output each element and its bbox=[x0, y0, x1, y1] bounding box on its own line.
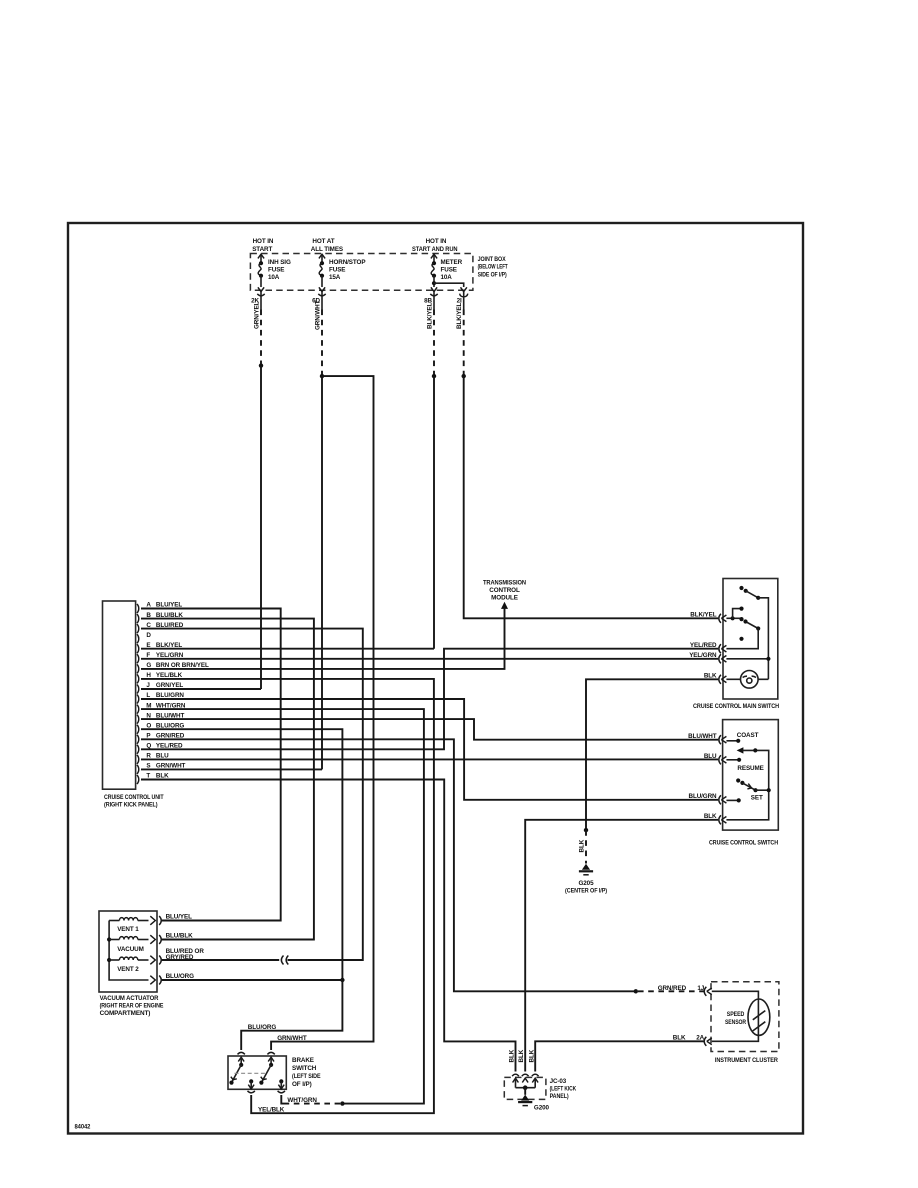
pin wire colour labels bbox=[156, 602, 209, 780]
svg-text:SIDE OF I/P): SIDE OF I/P) bbox=[478, 271, 507, 278]
actuator pin connectors (right edge) bbox=[150, 916, 161, 925]
solenoid coil VENT1 bbox=[109, 920, 119, 922]
pin connectors on box edge bbox=[719, 614, 727, 623]
input arrows into box bbox=[238, 1057, 244, 1061]
cruise control main switch SW1 bbox=[689, 579, 779, 711]
svg-text:INH SIG: INH SIG bbox=[268, 259, 291, 266]
svg-text:HOT IN: HOT IN bbox=[253, 238, 274, 245]
solenoid coil VACUUM bbox=[109, 939, 119, 941]
svg-text:(BELOW LEFT: (BELOW LEFT bbox=[478, 264, 508, 271]
svg-text:BLK: BLK bbox=[578, 839, 585, 852]
pin connectors bbox=[704, 987, 712, 996]
internal: YEL/GRN node bbox=[726, 658, 768, 660]
svg-text:GRN/WHT: GRN/WHT bbox=[277, 1035, 307, 1042]
svg-text:G205: G205 bbox=[578, 880, 594, 887]
svg-text:SPEED: SPEED bbox=[727, 1011, 745, 1018]
switch 1 bbox=[239, 1063, 243, 1067]
brake switch (left side of I/P) bbox=[228, 1024, 321, 1114]
svg-text:START AND RUN: START AND RUN bbox=[412, 246, 458, 253]
svg-text:G: G bbox=[146, 662, 151, 669]
svg-text:CRUISE CONTROL UNIT: CRUISE CONTROL UNIT bbox=[104, 794, 164, 801]
ground G200 bbox=[518, 1095, 549, 1112]
svg-text:BLK/YEL: BLK/YEL bbox=[690, 612, 716, 619]
svg-text:BLU/WHT: BLU/WHT bbox=[688, 733, 717, 740]
svg-text:GRN/RED: GRN/RED bbox=[658, 985, 687, 992]
common feed line bbox=[109, 921, 148, 981]
wire BRN OR BRN/YEL pin G to transmission control module bbox=[141, 607, 505, 669]
svg-text:BLK/YEL: BLK/YEL bbox=[426, 303, 433, 329]
wire BLK instrument cluster to JC-03 bbox=[535, 1041, 704, 1071]
node: transmission control module output bbox=[483, 579, 526, 609]
svg-text:ALL TIMES: ALL TIMES bbox=[311, 246, 343, 253]
instrument cluster (dashed box) bbox=[658, 982, 779, 1064]
wire P GRN/RED pin P to instrument cluster (dashed splice) bbox=[141, 739, 704, 993]
wire M WHT/GRN pin M to brake switch (dashed splice) bbox=[141, 709, 424, 1106]
svg-text:BLU/GRN: BLU/GRN bbox=[689, 793, 718, 800]
svg-text:CRUISE CONTROL MAIN SWITCH: CRUISE CONTROL MAIN SWITCH bbox=[693, 703, 779, 710]
solenoid coil VENT2 bbox=[109, 959, 119, 961]
svg-text:METER: METER bbox=[441, 259, 463, 266]
svg-text:HOT AT: HOT AT bbox=[312, 238, 334, 245]
svg-text:BLU/YEL: BLU/YEL bbox=[166, 914, 192, 921]
svg-text:1J: 1J bbox=[697, 985, 704, 992]
svg-text:HOT IN: HOT IN bbox=[426, 238, 447, 245]
connector 2K bbox=[251, 294, 265, 304]
svg-text:SENSOR: SENSOR bbox=[725, 1019, 746, 1026]
wire Q YEL/RED pin Q to cruise control main switch bbox=[141, 649, 718, 750]
svg-text:(RIGHT REAR OF ENGINE: (RIGHT REAR OF ENGINE bbox=[100, 1003, 164, 1010]
svg-text:WHT/GRN: WHT/GRN bbox=[287, 1097, 317, 1104]
svg-text:FUSE: FUSE bbox=[441, 267, 457, 274]
wire N BLU/WHT pin N to cruise control switch bbox=[141, 719, 718, 740]
svg-text:BLU/ORG: BLU/ORG bbox=[166, 973, 195, 980]
svg-text:YEL/GRN: YEL/GRN bbox=[689, 652, 717, 659]
wire B BLU/BLK to vacuum actuator bbox=[141, 619, 314, 940]
svg-text:(LEFT KICK: (LEFT KICK bbox=[550, 1085, 577, 1092]
arrows into JC-03 bbox=[513, 1078, 519, 1082]
svg-text:15A: 15A bbox=[329, 274, 341, 281]
border frame bbox=[68, 223, 803, 1134]
wire H YEL/BLK pin H to brake switch bbox=[141, 679, 434, 1113]
internal: top on/off contact bbox=[739, 586, 743, 590]
svg-text:SWITCH: SWITCH bbox=[292, 1065, 317, 1072]
svg-text:BRN OR BRN/YEL: BRN OR BRN/YEL bbox=[156, 662, 209, 669]
svg-text:COMPARTMENT): COMPARTMENT) bbox=[100, 1010, 151, 1017]
wire: meter fuse branch to 2I inside joint box bbox=[432, 281, 467, 292]
svg-text:MODULE: MODULE bbox=[491, 594, 518, 601]
wire BLK cruise control switch to JC-03 bbox=[525, 820, 718, 1072]
svg-text:10A: 10A bbox=[268, 274, 280, 281]
pin brackets A-T bbox=[137, 604, 139, 784]
fuse F1 INH SIG 10A bbox=[252, 238, 291, 291]
internal bus bbox=[516, 1087, 536, 1089]
output arrows bbox=[250, 1081, 252, 1088]
svg-text:BRAKE: BRAKE bbox=[292, 1057, 314, 1064]
ground G205 (center of I/P) bbox=[565, 864, 607, 895]
joint connector JC-03 (left kick panel) bbox=[504, 1049, 576, 1100]
connector cups bbox=[512, 1074, 519, 1076]
svg-text:CONTROL: CONTROL bbox=[489, 587, 520, 594]
svg-text:(CENTER OF I/P): (CENTER OF I/P) bbox=[565, 887, 607, 894]
wire GRN/WHT from fuse F2 down to pin S bbox=[314, 292, 324, 770]
wire GRN/YEL from fuse F1 down to pin J bbox=[253, 292, 263, 689]
svg-text:GRY/RED: GRY/RED bbox=[166, 954, 194, 961]
wire F YEL/GRN pin F to cruise control main switch bbox=[141, 658, 718, 660]
svg-text:(LEFT SIDE: (LEFT SIDE bbox=[292, 1073, 321, 1080]
svg-text:TRANSMISSION: TRANSMISSION bbox=[483, 579, 526, 586]
switch 2 bbox=[269, 1063, 273, 1067]
wire J GRN/YEL pin J stub bbox=[141, 688, 261, 690]
svg-text:FUSE: FUSE bbox=[268, 267, 284, 274]
svg-text:(RIGHT KICK PANEL): (RIGHT KICK PANEL) bbox=[104, 802, 158, 809]
internal: main contact set bbox=[726, 617, 741, 619]
svg-text:G200: G200 bbox=[534, 1104, 550, 1111]
svg-text:VENT 2: VENT 2 bbox=[117, 966, 139, 973]
fuse F3 METER 10A bbox=[412, 238, 463, 291]
wire BLK main switch to ground G205 bbox=[578, 679, 718, 863]
svg-text:BLK/YEL: BLK/YEL bbox=[456, 303, 463, 329]
wire A BLU/YEL to vacuum actuator vent1 bbox=[141, 609, 281, 921]
svg-text:RESUME: RESUME bbox=[737, 765, 763, 772]
svg-text:BLK: BLK bbox=[518, 1049, 525, 1062]
pin letter labels bbox=[146, 602, 151, 780]
wire BLK/YEL 8B from meter fuse down to pin E bbox=[426, 292, 436, 649]
svg-text:VACUUM: VACUUM bbox=[117, 946, 144, 953]
svg-text:FUSE: FUSE bbox=[329, 267, 345, 274]
cruise control switch SW2 (coast/resume/set) bbox=[688, 720, 778, 847]
wire O BLU/ORG pin O to actuator and brake switch bbox=[141, 729, 345, 1050]
svg-text:HORN/STOP: HORN/STOP bbox=[329, 259, 365, 266]
wire C BLU/RED to vacuum actuator (GRY/RED) bbox=[141, 629, 363, 960]
svg-text:BLU/BLK: BLU/BLK bbox=[166, 933, 193, 940]
connector 6D bbox=[312, 294, 326, 304]
svg-text:D: D bbox=[146, 632, 151, 639]
svg-text:SET: SET bbox=[751, 795, 763, 802]
svg-text:JC-03: JC-03 bbox=[550, 1078, 567, 1085]
connector 8B bbox=[424, 294, 438, 304]
wire R BLU pin R to cruise control switch bbox=[141, 758, 718, 760]
svg-text:VENT 1: VENT 1 bbox=[117, 926, 139, 933]
lamp (illumination bulb) bbox=[726, 678, 768, 680]
svg-text:INSTRUMENT CLUSTER: INSTRUMENT CLUSTER bbox=[715, 1057, 778, 1064]
svg-text:VACUUM ACTUATOR: VACUUM ACTUATOR bbox=[100, 995, 159, 1002]
internal wiring to speed sensor bbox=[712, 991, 759, 1041]
wire E BLK/YEL pin E stub bbox=[141, 648, 434, 650]
svg-text:GRN/YEL: GRN/YEL bbox=[253, 301, 260, 329]
svg-text:OF I/P): OF I/P) bbox=[292, 1081, 312, 1088]
wire T BLK pin T to joint connector JC-03 bbox=[141, 780, 516, 1072]
fuse F2 HORN/STOP 15A bbox=[311, 238, 366, 291]
connector 2I bbox=[457, 294, 468, 305]
bottom connectors bbox=[248, 1091, 255, 1093]
svg-text:YEL/RED: YEL/RED bbox=[690, 642, 717, 649]
svg-text:84042: 84042 bbox=[75, 1123, 91, 1130]
vacuum actuator (right rear of engine compartment) bbox=[99, 911, 204, 1017]
svg-text:JOINT BOX: JOINT BOX bbox=[478, 256, 507, 263]
wire BLK/YEL 2I from meter fuse to cruise main switch bbox=[456, 292, 718, 619]
wire L BLU/GRN pin L to cruise control switch bbox=[141, 699, 718, 800]
svg-text:BLK: BLK bbox=[509, 1049, 516, 1062]
speed sensor bbox=[748, 999, 770, 1035]
svg-text:10A: 10A bbox=[441, 274, 453, 281]
svg-text:COAST: COAST bbox=[737, 732, 759, 739]
cruise control unit (right kick panel) bbox=[103, 601, 164, 809]
svg-text:YEL/BLK: YEL/BLK bbox=[258, 1107, 285, 1114]
svg-text:CRUISE CONTROL SWITCH: CRUISE CONTROL SWITCH bbox=[709, 839, 778, 846]
wire S GRN/WHT pin S stub bbox=[141, 768, 322, 770]
top connectors bbox=[238, 1052, 245, 1054]
inline connector on GRY/RED wire bbox=[281, 956, 288, 965]
svg-text:START: START bbox=[252, 246, 272, 253]
svg-text:BLU: BLU bbox=[704, 753, 717, 760]
svg-text:PANEL): PANEL) bbox=[550, 1093, 569, 1100]
joint box JB (dashed, below left side of I/P) bbox=[250, 254, 507, 291]
svg-text:GRN/WHT: GRN/WHT bbox=[314, 300, 321, 330]
mechanical link bbox=[235, 1072, 268, 1074]
wire GRN/WHT branch to brake switch bbox=[271, 376, 373, 1050]
pin connectors bbox=[719, 735, 727, 744]
svg-text:BLU/ORG: BLU/ORG bbox=[248, 1024, 277, 1031]
